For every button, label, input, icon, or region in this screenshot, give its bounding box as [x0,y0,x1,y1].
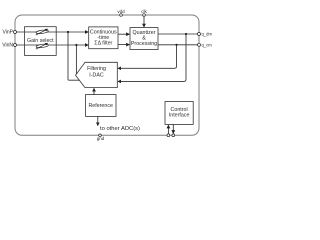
svg-text:ΣΔ filter: ΣΔ filter [94,41,112,47]
svg-text:vdd: vdd [117,9,125,14]
svg-text:VinP: VinP [3,30,14,36]
svg-text:q_cm: q_cm [202,43,213,48]
svg-text:Reference: Reference [88,103,112,109]
svg-text:clk: clk [141,9,147,14]
svg-text:Filtering: Filtering [87,66,106,72]
svg-text:gnd: gnd [97,136,105,141]
svg-text:VinN: VinN [2,43,13,49]
svg-text:to other ADC(s): to other ADC(s) [100,126,140,132]
svg-text:I-DAC: I-DAC [89,72,104,78]
svg-text:Interface: Interface [169,112,190,118]
svg-text:q_dm: q_dm [202,32,213,37]
svg-text:Processing: Processing [131,41,157,47]
svg-text:Gain select: Gain select [27,38,54,44]
